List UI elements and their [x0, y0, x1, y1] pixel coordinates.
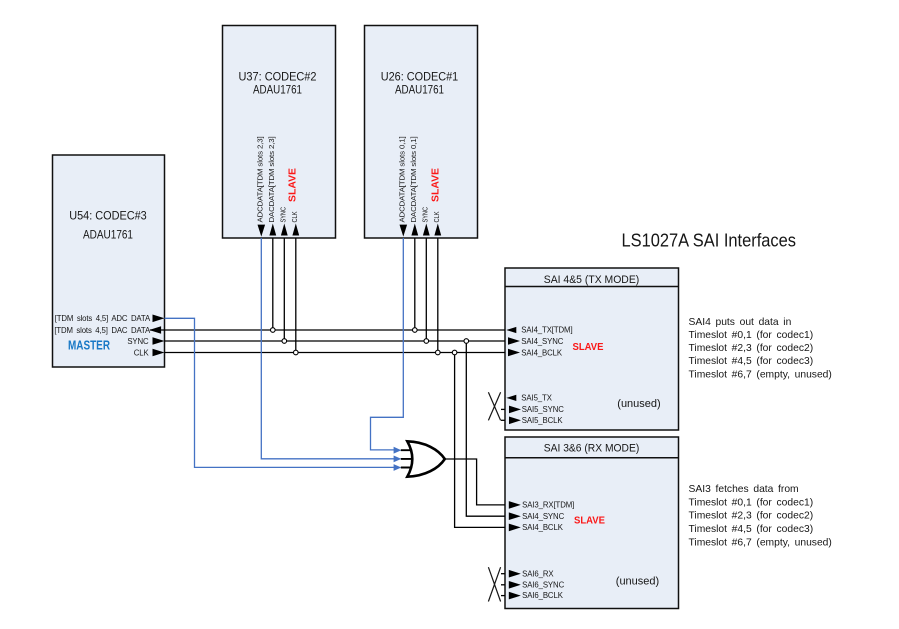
U54 pin [TDM slots 4,5] ADC DATA — [55, 314, 165, 323]
U54 pin [TDM slots 4,5] DAC DATA — [54, 326, 161, 335]
svg-text:[TDM slots 4,5] DAC DATA: [TDM slots 4,5] DAC DATA — [54, 326, 151, 335]
OR gate U1 — [401, 441, 445, 476]
svg-text:DACDATA[TDM slots 2,3]: DACDATA[TDM slots 2,3] — [267, 136, 276, 222]
svg-text:ADAU1761: ADAU1761 — [83, 229, 133, 241]
svg-text:ADCDATA[TDM slots 0,1]: ADCDATA[TDM slots 0,1] — [398, 136, 407, 222]
SAI 3&6 (RX MODE) box — [505, 437, 679, 609]
svg-text:U54: CODEC#3: U54: CODEC#3 — [69, 211, 147, 223]
svg-text:SAI4_SYNC: SAI4_SYNC — [521, 337, 563, 346]
svg-text:Timeslot #6,7 (empty, unused): Timeslot #6,7 (empty, unused) — [689, 369, 832, 380]
SAI36 pin SAI6_RX — [509, 569, 555, 578]
wire OR output to SAI3_RX — [446, 459, 506, 505]
svg-text:Timeslot #4,5 (for codec3): Timeslot #4,5 (for codec3) — [689, 524, 814, 535]
SAI45 pin SAI5_SYNC — [509, 405, 564, 414]
U26 pin ADCDATA[TDM slots 0,1] — [398, 136, 408, 236]
U37 pin ADCDATA[TDM slots 2,3] — [256, 136, 266, 236]
wire U37 SYNC vertical — [283, 238, 285, 341]
wire DAC/SAI4_TX net (horizontal) — [150, 329, 505, 331]
svg-text:Timeslot #2,3 (for codec2): Timeslot #2,3 (for codec2) — [689, 343, 814, 354]
svg-text:SAI4_SYNC: SAI4_SYNC — [522, 512, 564, 521]
svg-text:SAI3_RX[TDM]: SAI3_RX[TDM] — [522, 501, 574, 510]
junction on DAC net at U37 — [271, 328, 276, 333]
SAI36 pin SAI6_BCLK — [509, 591, 564, 600]
U26 pin SYNC — [421, 207, 430, 236]
wire U26 SYNC vertical — [425, 238, 427, 341]
U37 pin SYNC — [279, 207, 288, 236]
codec U54 box — [53, 155, 165, 367]
svg-text:SLAVE: SLAVE — [430, 168, 442, 202]
svg-text:SAI5_TX: SAI5_TX — [521, 394, 552, 403]
U54 pin CLK — [134, 348, 165, 357]
svg-text:SAI6_BCLK: SAI6_BCLK — [522, 591, 564, 600]
SAI45 pin SAI4_TX[TDM] — [506, 326, 572, 335]
svg-text:CLK: CLK — [432, 211, 441, 222]
SAI36 pin SAI4_BCLK — [509, 523, 564, 532]
codec U37 box — [223, 26, 336, 239]
junction on CLK net at U37 — [294, 350, 299, 355]
svg-text:SAI 3&6 (RX MODE): SAI 3&6 (RX MODE) — [544, 443, 640, 455]
blue wire U37 ADCDATA to OR input 2 — [261, 238, 394, 459]
SAI6 unused stub wires — [501, 574, 505, 596]
svg-text:SAI4_BCLK: SAI4_BCLK — [521, 348, 563, 357]
svg-text:SYNC: SYNC — [279, 207, 288, 223]
SAI36 pin SAI6_SYNC — [509, 580, 565, 589]
wire U26 DACDATA vertical — [414, 238, 416, 330]
svg-text:Timeslot #0,1 (for codec1): Timeslot #0,1 (for codec1) — [689, 330, 814, 341]
SAI45 pin SAI4_BCLK — [508, 348, 563, 357]
annotation SAI4 text block — [689, 317, 832, 380]
wire CLK net (horizontal) — [165, 352, 506, 354]
svg-text:CLK: CLK — [134, 348, 150, 357]
junction on SYNC net at U37 — [282, 339, 287, 344]
svg-text:SAI4_BCLK: SAI4_BCLK — [522, 523, 564, 532]
svg-text:SAI6_SYNC: SAI6_SYNC — [522, 580, 564, 589]
svg-text:[TDM slots 4,5] ADC DATA: [TDM slots 4,5] ADC DATA — [55, 314, 151, 323]
svg-text:U26: CODEC#1: U26: CODEC#1 — [381, 72, 459, 84]
svg-text:ADAU1761: ADAU1761 — [253, 85, 302, 97]
svg-text:(unused): (unused) — [616, 575, 659, 587]
SAI5 no-connect X mark — [488, 392, 500, 420]
annotation SAI3 text block — [689, 484, 832, 548]
svg-text:SLAVE: SLAVE — [286, 168, 298, 202]
SAI45 pin SAI5_TX — [506, 394, 552, 403]
junction on CLK net at branch — [452, 350, 457, 355]
wire SYNC branch to SAI36 — [466, 341, 505, 516]
SAI36 pin SAI3_RX[TDM] — [509, 501, 574, 510]
wire SYNC net (horizontal) — [165, 340, 506, 342]
svg-text:CLK: CLK — [290, 211, 299, 222]
junction on DAC net at U26 — [413, 328, 418, 333]
svg-text:Timeslot #0,1 (for codec1): Timeslot #0,1 (for codec1) — [689, 497, 814, 508]
wire U37 CLK vertical — [295, 238, 297, 353]
U26 pin DACDATA[TDM slots 0,1] — [409, 136, 418, 235]
svg-text:DACDATA[TDM slots 0,1]: DACDATA[TDM slots 0,1] — [409, 136, 418, 222]
svg-text:SLAVE: SLAVE — [574, 514, 605, 526]
SAI36 pin SAI4_SYNC — [509, 512, 565, 521]
blue arrowhead OR input 3 — [394, 464, 402, 471]
svg-text:ADAU1761: ADAU1761 — [395, 85, 444, 97]
wire CLK branch to SAI36 — [455, 353, 505, 528]
wire U37 DACDATA vertical — [272, 238, 274, 330]
blue arrowhead OR input 2 — [394, 456, 402, 463]
SAI 4&5 (TX MODE) box — [505, 268, 679, 430]
blue wire U26 ADCDATA to OR input 1 — [371, 238, 404, 450]
svg-text:SAI5_BCLK: SAI5_BCLK — [522, 416, 564, 425]
junction on CLK net at U26 — [436, 350, 441, 355]
blue arrowhead OR input 1 — [394, 447, 402, 454]
SAI45 pin SAI4_SYNC — [508, 337, 564, 346]
svg-text:ADCDATA[TDM slots 2,3]: ADCDATA[TDM slots 2,3] — [256, 136, 265, 222]
svg-text:MASTER: MASTER — [68, 339, 110, 353]
U54 pin SYNC — [127, 337, 164, 346]
svg-text:LS1027A SAI Interfaces: LS1027A SAI Interfaces — [622, 231, 797, 251]
SAI45 pin SAI5_BCLK — [509, 416, 563, 425]
SAI6 no-connect X mark — [488, 567, 500, 601]
U37 pin DACDATA[TDM slots 2,3] — [267, 136, 276, 235]
junction on SYNC net at branch — [464, 339, 469, 344]
svg-text:SAI3 fetches data from: SAI3 fetches data from — [689, 484, 799, 495]
svg-text:SLAVE: SLAVE — [573, 341, 604, 353]
svg-text:SAI6_RX: SAI6_RX — [522, 569, 554, 578]
junction on SYNC net at U26 — [424, 339, 429, 344]
wire U26 CLK vertical — [437, 238, 439, 353]
svg-text:SYNC: SYNC — [421, 207, 430, 223]
svg-text:Timeslot #4,5 (for codec3): Timeslot #4,5 (for codec3) — [689, 356, 814, 367]
svg-text:U37: CODEC#2: U37: CODEC#2 — [239, 72, 317, 84]
svg-text:SAI5_SYNC: SAI5_SYNC — [522, 405, 564, 414]
codec U26 box — [365, 26, 478, 239]
svg-text:(unused): (unused) — [617, 398, 660, 410]
svg-text:SAI 4&5 (TX MODE): SAI 4&5 (TX MODE) — [544, 274, 640, 286]
U26 pin CLK — [432, 211, 441, 235]
svg-text:Timeslot #6,7 (empty, unused): Timeslot #6,7 (empty, unused) — [689, 537, 832, 548]
SAI5 unused stub wires — [501, 409, 505, 420]
svg-text:SAI4 puts out data in: SAI4 puts out data in — [689, 317, 792, 328]
svg-text:SAI4_TX[TDM]: SAI4_TX[TDM] — [521, 326, 572, 335]
svg-text:SYNC: SYNC — [127, 337, 149, 346]
blue wire U54 ADC to OR input 3 — [165, 318, 395, 467]
svg-text:Timeslot #2,3 (for codec2): Timeslot #2,3 (for codec2) — [689, 511, 814, 522]
U37 pin CLK — [290, 211, 299, 235]
